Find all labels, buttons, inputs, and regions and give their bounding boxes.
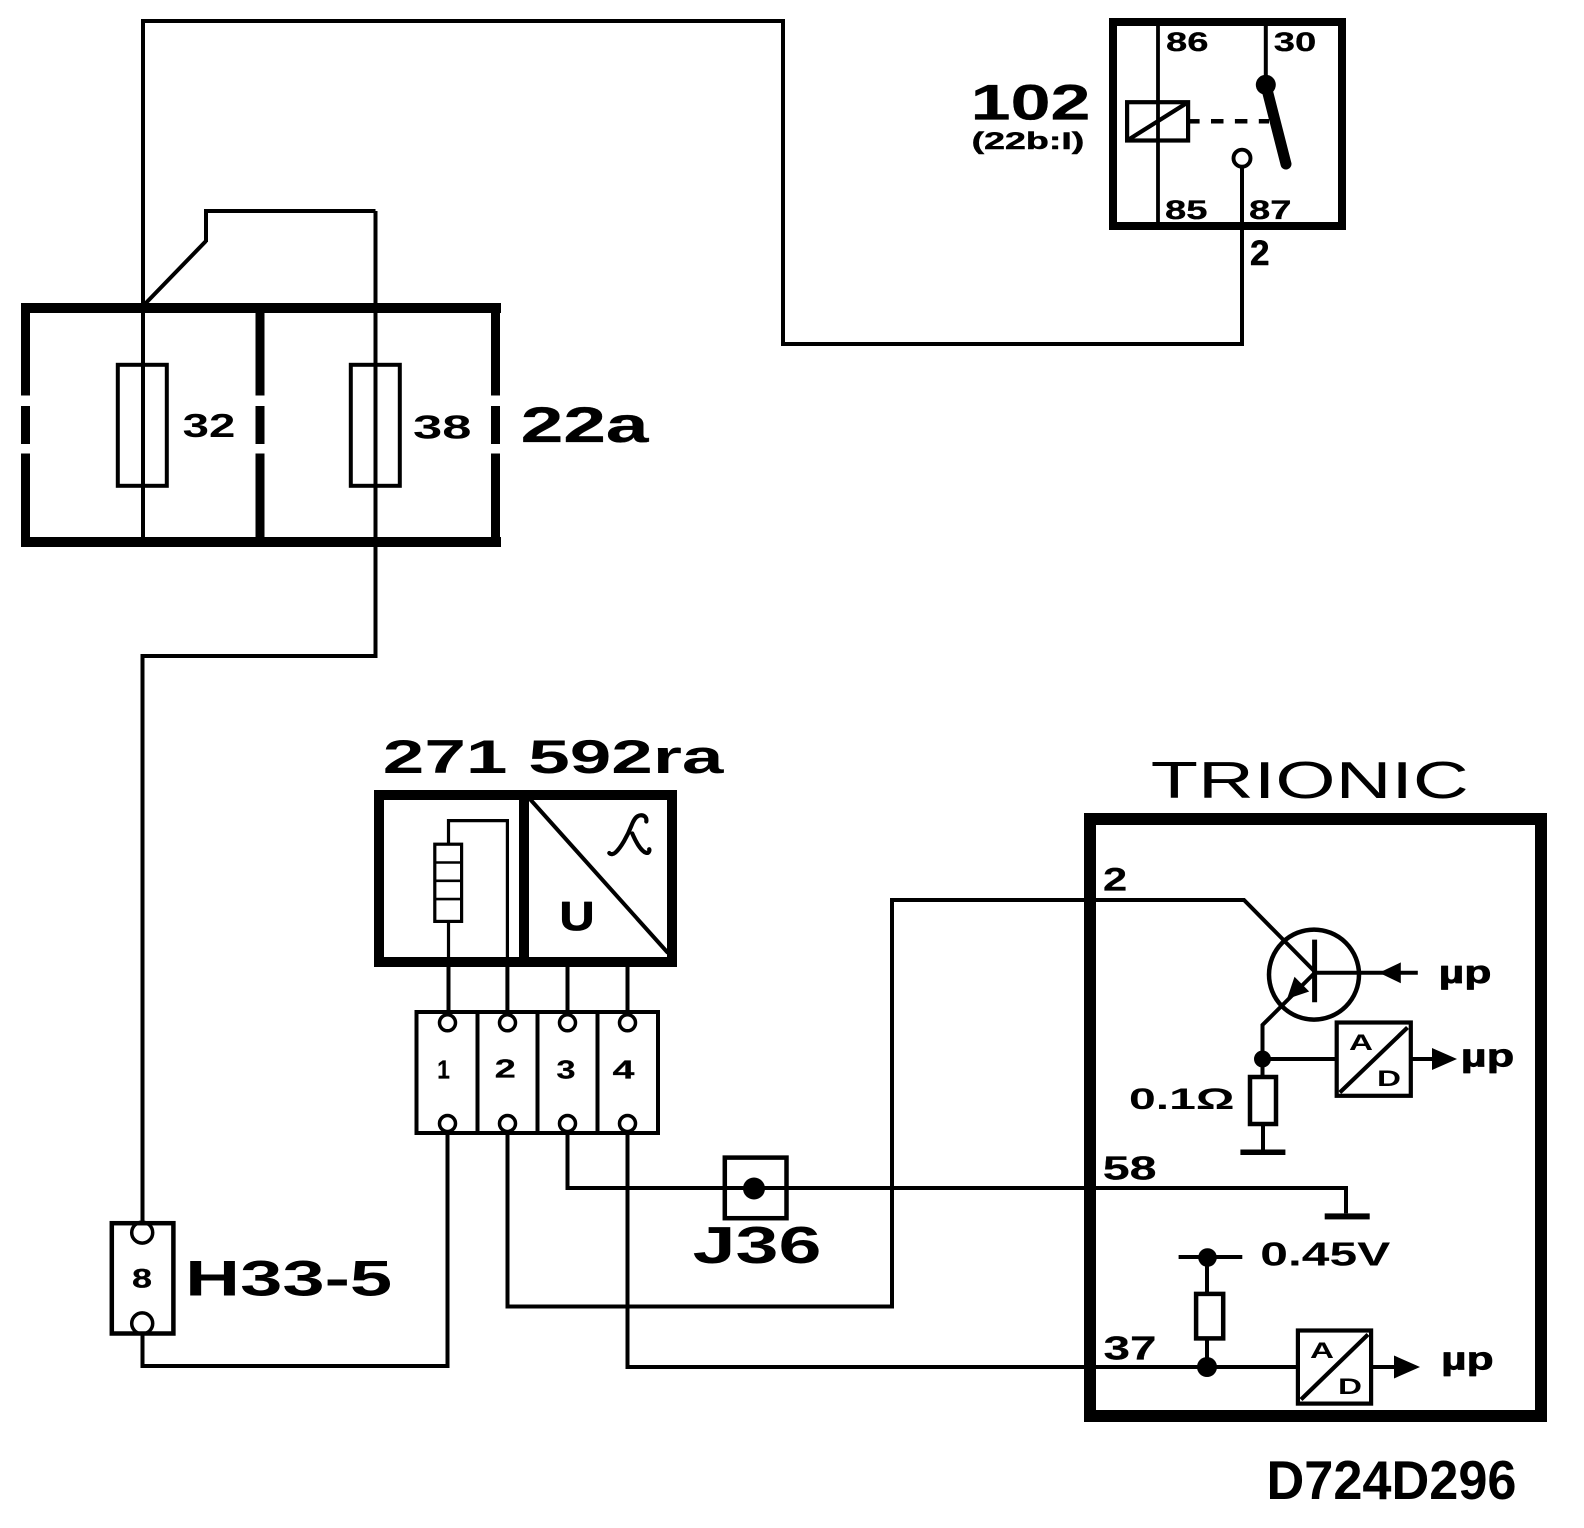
oxygen sensor divider bbox=[519, 790, 529, 967]
svg-text:3: 3 bbox=[556, 1056, 575, 1084]
transistor collector wire to microprocessor bbox=[1315, 971, 1418, 975]
wire sensor pin1 to connector bbox=[447, 921, 450, 963]
svg-text:4: 4 bbox=[613, 1056, 636, 1084]
connector pin circles bottom bbox=[440, 1116, 636, 1132]
wire: pigtail entry into fuse 38 bbox=[143, 211, 376, 306]
svg-text:32: 32 bbox=[183, 407, 236, 444]
ground (pin 58) bbox=[1325, 1213, 1370, 1219]
svg-text:D724D296: D724D296 bbox=[1267, 1449, 1517, 1511]
sensor diagonal bbox=[529, 798, 668, 953]
resistor R2 bbox=[1196, 1294, 1223, 1339]
wire connector pin4 to TRIONIC pin 37 bbox=[628, 1132, 1299, 1367]
svg-text:A: A bbox=[1349, 1030, 1373, 1055]
svg-text:2: 2 bbox=[1250, 234, 1270, 273]
svg-text:58: 58 bbox=[1103, 1149, 1157, 1186]
relay contact pivot 30 bbox=[1256, 75, 1276, 95]
junction J36 dot bbox=[743, 1178, 765, 1200]
sensor heater loop wire bbox=[449, 821, 508, 963]
svg-text:1: 1 bbox=[437, 1056, 450, 1084]
node 0.45V dot bbox=[1198, 1248, 1217, 1267]
ground (R1) bbox=[1240, 1150, 1285, 1156]
svg-text:271 592ra: 271 592ra bbox=[383, 730, 725, 783]
H33-5 pin circle bottom bbox=[132, 1313, 153, 1334]
fuse 32 bbox=[118, 365, 167, 486]
svg-text:2: 2 bbox=[1103, 862, 1127, 898]
relay wire 86-85 bbox=[1156, 26, 1160, 222]
sensor connector box bbox=[417, 1012, 659, 1133]
emitter arrow bbox=[1287, 977, 1309, 999]
resistor R1 0.1 ohm bbox=[1250, 1077, 1276, 1124]
svg-text:0.45V: 0.45V bbox=[1260, 1237, 1391, 1274]
A/D converter U1 bbox=[1337, 1023, 1411, 1096]
svg-text:µp: µp bbox=[1461, 1038, 1514, 1074]
svg-text:(22b:I): (22b:I) bbox=[972, 128, 1085, 155]
relay coil bbox=[1127, 102, 1188, 140]
svg-text:85: 85 bbox=[1165, 195, 1208, 225]
svg-text:87: 87 bbox=[1249, 195, 1292, 225]
wire A/D 1 output bbox=[1411, 1057, 1434, 1061]
svg-text:D: D bbox=[1338, 1374, 1362, 1399]
relay switch blade bbox=[1266, 85, 1286, 164]
svg-text:8: 8 bbox=[132, 1264, 152, 1294]
svg-text:86: 86 bbox=[1166, 27, 1209, 57]
svg-text:TRIONIC: TRIONIC bbox=[1151, 752, 1469, 810]
H33-5 pin circle top bbox=[132, 1222, 153, 1243]
svg-text:U: U bbox=[560, 893, 595, 939]
svg-text:µp: µp bbox=[1441, 1340, 1494, 1376]
wire resistor R1 to ground bbox=[1261, 1124, 1265, 1150]
svg-text:H33-5: H33-5 bbox=[185, 1251, 392, 1307]
wire sensor pin3 to connector bbox=[566, 960, 570, 1014]
svg-text:2: 2 bbox=[495, 1056, 516, 1084]
svg-text:D: D bbox=[1377, 1066, 1401, 1091]
svg-text:30: 30 bbox=[1274, 27, 1317, 57]
sensor lambda symbol bbox=[609, 815, 649, 854]
svg-text:0.1Ω: 0.1Ω bbox=[1129, 1083, 1235, 1116]
svg-text:22a: 22a bbox=[521, 397, 650, 453]
junction J36 box bbox=[725, 1158, 787, 1219]
svg-text:38: 38 bbox=[413, 408, 471, 445]
oxygen sensor box bbox=[379, 795, 672, 962]
TRIONIC box bbox=[1090, 819, 1541, 1416]
fuse box 22a bbox=[21, 303, 501, 547]
transistor base bar bbox=[1312, 940, 1317, 1003]
node: pin 37 junction dot bbox=[1197, 1357, 1217, 1377]
A/D 2 output arrow bbox=[1394, 1356, 1420, 1379]
relay contact 87 bbox=[1234, 150, 1251, 167]
wire resistor R2 to pin 37 node bbox=[1205, 1338, 1209, 1367]
relay terminal 30 wire bbox=[1264, 26, 1268, 84]
wire 0.45V to resistor R2 bbox=[1205, 1257, 1209, 1294]
wire connector pin3 to TRIONIC pin 58 bbox=[568, 1132, 1347, 1213]
wire A/D 2 output bbox=[1371, 1365, 1396, 1369]
node: emitter junction dot bbox=[1254, 1051, 1271, 1068]
wire junction to A/D converter 1 bbox=[1263, 1057, 1337, 1061]
sensor heater element bbox=[435, 844, 462, 921]
connector pin circles top bbox=[440, 1015, 636, 1031]
H33-5 connector bbox=[112, 1223, 174, 1333]
A/D converter U2 bbox=[1298, 1331, 1371, 1404]
wire: relay pin 2 to fuse box top (via top of page) bbox=[143, 21, 1242, 344]
0.45V reference tap bbox=[1179, 1255, 1243, 1259]
transistor Q1 circle bbox=[1269, 930, 1359, 1020]
A/D 1 output arrow bbox=[1432, 1048, 1457, 1070]
wire connector pin1 to H33-5 bbox=[143, 1132, 448, 1366]
svg-text:A: A bbox=[1310, 1338, 1334, 1363]
connector dividers bbox=[478, 1012, 598, 1133]
svg-text:µp: µp bbox=[1439, 954, 1492, 990]
wire connector pin2 to TRIONIC pin 2 bbox=[508, 900, 1315, 1307]
relay 102 box bbox=[1113, 22, 1342, 226]
svg-text:102: 102 bbox=[971, 75, 1091, 131]
wire: fuse 38 down, left, down to H33-5 pin 8 bbox=[143, 211, 376, 1223]
fuse 38 bbox=[351, 365, 400, 486]
svg-text:J36: J36 bbox=[693, 1217, 822, 1275]
relay coil-contact dashed link bbox=[1188, 119, 1200, 124]
transistor emitter wire bbox=[1263, 973, 1315, 1077]
wire sensor pin4 to connector bbox=[626, 960, 630, 1014]
collector arrow bbox=[1379, 962, 1401, 983]
wire: fuse 32 feed through fuse box bbox=[141, 306, 145, 540]
svg-text:37: 37 bbox=[1104, 1331, 1157, 1368]
